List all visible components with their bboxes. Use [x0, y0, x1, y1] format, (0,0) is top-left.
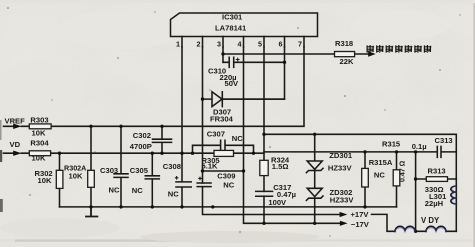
svg-text:C302: C302: [133, 131, 151, 140]
svg-text:VREF: VREF: [5, 116, 26, 125]
svg-text:ZD301: ZD301: [329, 151, 353, 160]
svg-text:C305: C305: [130, 166, 149, 175]
svg-text:C308: C308: [163, 162, 181, 171]
svg-text:C309: C309: [217, 171, 235, 180]
svg-text:HZ33V: HZ33V: [328, 164, 353, 173]
svg-text:NC: NC: [232, 134, 243, 143]
svg-text:V DY: V DY: [421, 216, 440, 225]
svg-text:5: 5: [258, 40, 262, 49]
svg-text:FR304: FR304: [210, 114, 234, 123]
svg-text:R303: R303: [30, 116, 48, 125]
svg-text:6: 6: [279, 40, 283, 49]
svg-text:NC: NC: [109, 185, 120, 194]
svg-text:NC: NC: [374, 170, 385, 179]
svg-text:C313: C313: [435, 136, 453, 145]
svg-text:1.5Ω: 1.5Ω: [272, 162, 289, 171]
svg-text:VD: VD: [10, 140, 21, 149]
svg-text:4700P: 4700P: [130, 142, 152, 151]
svg-text:100V: 100V: [268, 198, 287, 207]
svg-text:7: 7: [298, 40, 302, 49]
svg-text:−17V: −17V: [351, 220, 370, 229]
svg-text:R315: R315: [382, 140, 401, 149]
svg-text:NC: NC: [168, 189, 179, 198]
svg-text:NC: NC: [132, 186, 143, 195]
svg-text:1: 1: [176, 40, 180, 49]
svg-text:0.47 Ω: 0.47 Ω: [400, 160, 407, 182]
svg-text:10K: 10K: [38, 176, 52, 185]
svg-text:R318: R318: [335, 39, 353, 48]
svg-text:2: 2: [197, 40, 201, 49]
svg-text:3: 3: [217, 40, 221, 49]
svg-text:R313: R313: [428, 167, 446, 176]
svg-text:5.1K: 5.1K: [202, 162, 219, 171]
svg-text:C303: C303: [100, 166, 118, 175]
svg-text:50V: 50V: [225, 79, 239, 88]
svg-text:LA78141: LA78141: [215, 24, 247, 33]
svg-text:+17V: +17V: [351, 210, 370, 219]
svg-text:10K: 10K: [32, 154, 46, 163]
svg-text:22K: 22K: [340, 57, 354, 66]
svg-text:10K: 10K: [69, 171, 83, 180]
svg-text:R304: R304: [30, 138, 49, 147]
svg-text:0.1µ: 0.1µ: [412, 142, 427, 151]
svg-text:NC: NC: [223, 180, 234, 189]
svg-text:IC301: IC301: [222, 13, 243, 22]
svg-text:HZ33V: HZ33V: [330, 196, 355, 205]
svg-text:4: 4: [238, 40, 242, 49]
svg-text:R315A: R315A: [369, 158, 393, 167]
svg-text:22µH: 22µH: [425, 199, 443, 208]
svg-text:C307: C307: [207, 129, 225, 138]
svg-text:10K: 10K: [32, 129, 46, 138]
